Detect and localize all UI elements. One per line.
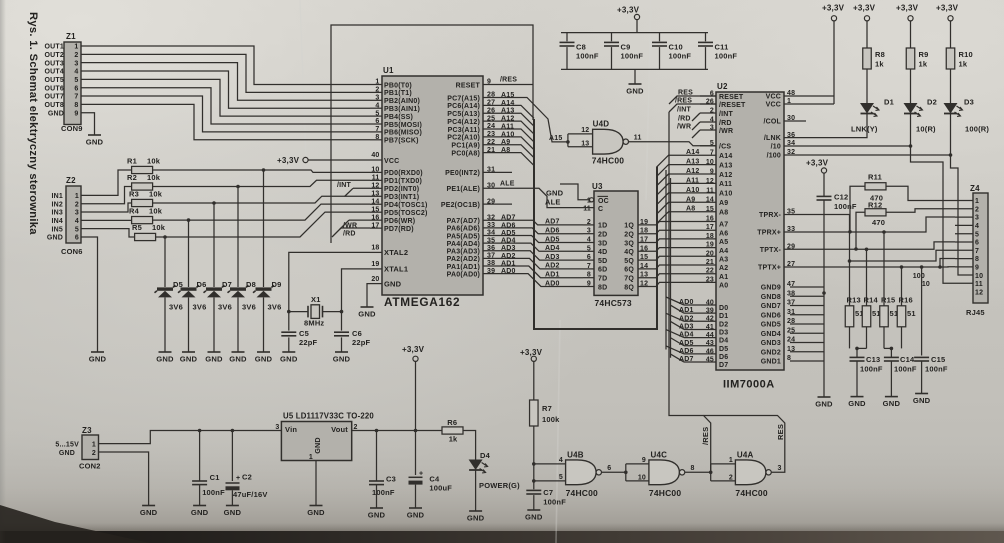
svg-text:+3,3V: +3,3V: [617, 6, 640, 15]
svg-text:A12: A12: [719, 172, 732, 179]
wire R4 output to U1 PD4: [153, 204, 370, 222]
ground zener D6: [180, 298, 198, 364]
svg-text:PD3(INT1): PD3(INT1): [384, 194, 419, 201]
svg-text:D1: D1: [884, 98, 894, 107]
svg-text:IN3: IN3: [52, 210, 64, 217]
net labels AD7-AD0 at U1: [501, 215, 516, 275]
svg-text:100nF: 100nF: [834, 202, 857, 211]
svg-text:Z2: Z2: [66, 176, 76, 185]
svg-text:/RD: /RD: [719, 120, 732, 127]
svg-text:D2: D2: [927, 98, 937, 107]
svg-text:1k: 1k: [875, 60, 884, 69]
svg-text:74HC00: 74HC00: [592, 156, 624, 166]
svg-text:AD4: AD4: [679, 332, 694, 339]
svg-text:GND: GND: [224, 508, 242, 517]
net label /RD at U1 PD7: [332, 228, 370, 237]
svg-text:Z4: Z4: [970, 184, 980, 193]
svg-text:5: 5: [75, 226, 79, 233]
svg-text:12: 12: [706, 178, 714, 185]
capacitor C6 22pF: [334, 312, 371, 347]
svg-text:PA6(AD6): PA6(AD6): [447, 226, 480, 233]
svg-text:A8: A8: [719, 210, 728, 217]
svg-text:GND: GND: [848, 399, 866, 408]
resistor R7 100k: [530, 400, 561, 426]
svg-text:470: 470: [872, 218, 885, 227]
svg-text:3: 3: [75, 210, 79, 217]
resistor R9 1k: [906, 21, 928, 69]
capacitor C12 100nF: [817, 173, 857, 211]
svg-text:9: 9: [975, 265, 979, 272]
ground C1: [191, 485, 209, 517]
wire Z2 pin3 to R3: [81, 203, 132, 212]
svg-text:100nF: 100nF: [715, 52, 738, 61]
ic U2 IIM7000A: [716, 82, 784, 391]
svg-text:4: 4: [559, 457, 563, 464]
svg-text:10k: 10k: [149, 190, 163, 199]
svg-text:U4A: U4A: [737, 451, 754, 460]
svg-text:GND: GND: [815, 400, 833, 409]
svg-text:1Q: 1Q: [624, 223, 634, 230]
svg-text:4: 4: [74, 69, 78, 76]
U2 left pin labels A7-A0: [719, 222, 728, 290]
net labels RES /RES /INT /RD /WR at U2: [675, 90, 693, 131]
svg-text:PB6(MISO): PB6(MISO): [384, 130, 422, 137]
svg-text:100nF: 100nF: [894, 365, 917, 374]
svg-text:23: 23: [706, 276, 714, 283]
ground C13: [848, 361, 866, 408]
svg-text:1: 1: [92, 441, 96, 448]
svg-text:15: 15: [706, 206, 714, 213]
resistor R13 51: [845, 296, 864, 327]
wire U4D output to U2 /CS: [629, 142, 716, 146]
svg-text:4: 4: [75, 218, 79, 225]
nand gate U4C 74HC00: [649, 451, 695, 499]
svg-text:40: 40: [371, 152, 379, 159]
svg-text:/10: /10: [771, 144, 781, 151]
zener D5 3V6: [155, 280, 184, 312]
svg-text:10: 10: [706, 159, 714, 166]
svg-text:R7: R7: [542, 404, 552, 413]
svg-text:A12: A12: [686, 168, 699, 175]
svg-text:GND: GND: [280, 355, 298, 364]
svg-text:XTAL2: XTAL2: [384, 248, 408, 257]
power +3.3V at C12: [806, 159, 829, 174]
resistor R15 51: [880, 296, 899, 327]
wire Z2 pin4 to R4: [81, 219, 132, 221]
svg-text:R16: R16: [899, 296, 913, 305]
svg-text:GND: GND: [307, 508, 325, 517]
resistor R3 10k: [129, 190, 163, 207]
svg-text:2: 2: [74, 52, 78, 59]
svg-text:U1: U1: [383, 66, 394, 75]
wire TPRX+ to R15 and Z4 pin3: [784, 217, 955, 306]
svg-text:C10: C10: [669, 43, 683, 52]
svg-text:D6: D6: [719, 354, 728, 361]
U1 right pin labels and numbers: [441, 79, 495, 279]
svg-text:1: 1: [75, 193, 79, 200]
ground C2: [224, 490, 242, 517]
svg-text:51: 51: [907, 309, 916, 318]
ground C6: [333, 337, 351, 363]
wire Z3 pin1 to regulator rail: [99, 431, 282, 444]
svg-text:D0: D0: [719, 305, 728, 312]
svg-text:PB7(SCK): PB7(SCK): [384, 138, 419, 145]
svg-text:10: 10: [922, 281, 930, 288]
svg-text:+: +: [236, 475, 240, 482]
svg-text:C8: C8: [576, 43, 586, 52]
svg-text:AD6: AD6: [545, 228, 560, 235]
svg-text:5: 5: [74, 77, 78, 84]
U2 left pin labels A14-A8: [706, 150, 733, 217]
wire R3 output to U1 PD3: [153, 196, 370, 205]
svg-text:PC4(A12): PC4(A12): [447, 119, 480, 126]
wire U4C output to U4A inputs: [685, 457, 736, 482]
bus A14-A8 from U1 to U2: [500, 105, 716, 329]
wire TPTX- to R14 and Z4 pin6: [784, 242, 955, 306]
zener D8 3V6: [228, 280, 257, 312]
ground D4: [467, 470, 485, 523]
svg-text:20: 20: [371, 276, 379, 283]
svg-text:GND: GND: [358, 310, 376, 319]
svg-text:10k: 10k: [147, 157, 161, 166]
svg-text:U4B: U4B: [567, 451, 584, 460]
svg-text:PC3(A11): PC3(A11): [448, 127, 480, 134]
svg-text:4D: 4D: [598, 249, 607, 256]
svg-text:GND: GND: [86, 138, 104, 147]
connector Z3 CON2: [55, 426, 100, 471]
wire U2 ground bus: [790, 200, 826, 397]
wire R11 to Z4 pin1: [848, 186, 955, 233]
svg-text:/INT: /INT: [719, 111, 734, 118]
svg-text:1k: 1k: [449, 435, 458, 444]
svg-text:C2: C2: [242, 473, 252, 482]
svg-text:5: 5: [975, 231, 979, 238]
ground zener D9: [255, 298, 273, 364]
svg-text:74HC00: 74HC00: [649, 488, 681, 498]
svg-text:Z1: Z1: [66, 32, 76, 41]
svg-text:PB4(SS): PB4(SS): [384, 114, 413, 121]
wire input to zener D9: [263, 170, 265, 287]
power +3.3V at regulator output: [402, 345, 425, 431]
svg-text:A11: A11: [686, 177, 699, 184]
svg-text:1: 1: [74, 44, 78, 51]
capacitor C8 100nF: [560, 33, 599, 70]
svg-text:C9: C9: [621, 43, 631, 52]
svg-text:1k: 1k: [919, 60, 928, 69]
ground Z2 pin6: [81, 237, 107, 364]
svg-text:R8: R8: [875, 50, 885, 59]
svg-text:3V6: 3V6: [193, 303, 207, 312]
svg-text:GND: GND: [59, 450, 75, 457]
svg-text:19: 19: [706, 242, 714, 249]
svg-text:ALE: ALE: [545, 198, 561, 207]
wire R5 output to U1 PD5: [156, 212, 370, 239]
svg-text:5...15V: 5...15V: [55, 442, 79, 449]
svg-text:+3,3V: +3,3V: [896, 4, 919, 13]
svg-text:A13: A13: [719, 162, 732, 169]
svg-text:8: 8: [975, 256, 979, 263]
wire R6 to led D4: [463, 431, 476, 460]
svg-text:GND7: GND7: [761, 303, 781, 310]
resistor R2 10k: [127, 173, 161, 190]
svg-text:A14: A14: [686, 149, 699, 156]
svg-text:/100: /100: [767, 153, 781, 160]
svg-text:GND3: GND3: [761, 340, 781, 347]
svg-text:10k: 10k: [149, 207, 163, 216]
svg-text:2D: 2D: [598, 232, 607, 239]
svg-text:GND: GND: [205, 355, 223, 364]
wire input to zener D7: [213, 203, 215, 287]
svg-text:5D: 5D: [598, 258, 607, 265]
svg-text:10: 10: [975, 273, 983, 280]
svg-text:PE1(ALE): PE1(ALE): [447, 186, 481, 193]
resistor R4 10k: [129, 207, 163, 224]
svg-text:100nF: 100nF: [860, 365, 883, 374]
svg-text:/LNK: /LNK: [764, 135, 781, 142]
svg-text:GND: GND: [313, 437, 322, 454]
svg-text:PD7(RD): PD7(RD): [384, 226, 414, 233]
wire XTAL1 to crystal: [340, 269, 370, 314]
svg-text:AD2: AD2: [545, 263, 560, 270]
svg-text:OUT2: OUT2: [45, 52, 64, 59]
wire XTAL2 to crystal: [287, 252, 370, 313]
svg-text:AD0: AD0: [545, 280, 560, 287]
resistor R5 10k: [132, 223, 166, 241]
svg-text:8: 8: [74, 102, 78, 109]
svg-text:D5: D5: [719, 346, 728, 353]
svg-text:OUT6: OUT6: [45, 85, 64, 92]
svg-text:R14: R14: [864, 296, 879, 305]
wire R1 output to U1 PD0: [153, 168, 370, 172]
svg-text:7: 7: [74, 94, 78, 101]
svg-text:OUT8: OUT8: [45, 102, 64, 109]
svg-text:8D: 8D: [598, 284, 607, 291]
net label /INT at U1 PD2: [337, 182, 370, 197]
svg-text:11: 11: [634, 135, 642, 142]
led D4 POWER(G): [469, 451, 520, 490]
svg-text:4: 4: [975, 223, 979, 230]
svg-text:A2: A2: [719, 265, 728, 272]
svg-text:8Q: 8Q: [624, 284, 634, 291]
svg-text:AD5: AD5: [545, 236, 560, 243]
svg-text:1: 1: [309, 454, 313, 461]
svg-text:+3,3V: +3,3V: [277, 156, 300, 165]
svg-text:TPTX-: TPTX-: [760, 247, 782, 254]
svg-text:6: 6: [607, 465, 611, 472]
svg-text:OUT7: OUT7: [45, 94, 64, 101]
svg-text:6D: 6D: [598, 267, 607, 274]
svg-text:OUT5: OUT5: [45, 77, 64, 84]
svg-text:1k: 1k: [959, 60, 968, 69]
svg-text:A10: A10: [686, 187, 699, 194]
connector Z2 CON6: [47, 176, 83, 256]
ground cap bank: [626, 69, 644, 95]
svg-text:/INT: /INT: [337, 182, 352, 189]
resistor R8 1k with LED column: [863, 21, 885, 69]
svg-text:OUT4: OUT4: [45, 69, 64, 76]
svg-text:PC0(A8): PC0(A8): [451, 150, 480, 157]
wire R12 to Z4 pin2: [854, 209, 955, 251]
ground C3: [368, 485, 386, 520]
svg-text:AD7: AD7: [679, 356, 694, 363]
svg-text:5: 5: [559, 474, 563, 481]
svg-text:R5: R5: [132, 223, 142, 232]
svg-text:D7: D7: [719, 362, 728, 369]
svg-text:100nF: 100nF: [925, 365, 948, 374]
svg-text:PE2(OC1B): PE2(OC1B): [441, 202, 480, 209]
svg-text:D9: D9: [272, 280, 282, 289]
svg-text:GND: GND: [913, 396, 931, 405]
svg-text:A5: A5: [719, 239, 728, 246]
ground C15: [913, 361, 931, 405]
connector Z4 RJ45: [966, 184, 988, 317]
svg-text:U2: U2: [717, 82, 728, 91]
ic U3 74HC573: [592, 182, 638, 308]
svg-text:74HC00: 74HC00: [566, 488, 598, 498]
svg-text:AD3: AD3: [679, 323, 694, 330]
svg-text:3V6: 3V6: [169, 303, 183, 312]
capacitor C10 100nF: [652, 33, 691, 70]
svg-text:AD2: AD2: [679, 315, 694, 322]
net label /RES vertical: [701, 427, 710, 445]
ground C7: [525, 495, 543, 521]
svg-text:GND: GND: [89, 355, 107, 364]
svg-text:LNK(Y): LNK(Y): [851, 125, 878, 134]
power +3.3V R8: [853, 4, 876, 21]
net labels A15-A8 at U1: [501, 92, 514, 154]
svg-text:74HC573: 74HC573: [595, 298, 632, 308]
svg-text:AD5: AD5: [679, 340, 694, 347]
svg-text:CON6: CON6: [61, 247, 83, 256]
svg-text:PA1(AD1): PA1(AD1): [447, 264, 480, 271]
svg-text:3V6: 3V6: [242, 303, 256, 312]
svg-text:GND: GND: [229, 355, 247, 364]
svg-text:U4D: U4D: [593, 120, 610, 129]
svg-text:C: C: [598, 206, 603, 213]
wire D1 to U2 /LNK: [784, 114, 867, 138]
svg-text:RES: RES: [678, 90, 693, 97]
svg-text:16: 16: [706, 216, 714, 223]
svg-text:7: 7: [975, 248, 979, 255]
svg-text:/RES: /RES: [500, 77, 517, 84]
zener D6 3V6: [178, 280, 207, 312]
svg-text:PD6(WR): PD6(WR): [384, 218, 415, 225]
capacitor C11 100nF: [698, 33, 737, 70]
svg-text:GND: GND: [368, 511, 386, 520]
svg-text:GND: GND: [546, 189, 564, 198]
svg-text:7Q: 7Q: [624, 276, 634, 283]
svg-text:R3: R3: [129, 190, 139, 199]
svg-text:GND4: GND4: [761, 331, 781, 338]
svg-text:ALE: ALE: [500, 181, 515, 188]
svg-text:IN4: IN4: [52, 218, 64, 225]
svg-text:PA3(AD3): PA3(AD3): [447, 249, 480, 256]
led D1 LNK(Y): [851, 69, 894, 134]
svg-text:D1: D1: [719, 313, 728, 320]
wire TPRX- to R13 and Z4 pin7: [784, 215, 955, 306]
U1 pin stubs right: [483, 85, 512, 274]
svg-text:PD0(RXD0): PD0(RXD0): [384, 170, 423, 177]
svg-text:11: 11: [975, 281, 983, 288]
svg-text:/RESET: /RESET: [719, 102, 746, 109]
svg-text:100k: 100k: [542, 415, 560, 424]
U2 left pin labels top group: [706, 90, 746, 150]
svg-text:OUT3: OUT3: [45, 60, 64, 67]
svg-text:IN1: IN1: [52, 193, 64, 200]
wire Z2 pin2 to R2: [81, 187, 132, 204]
svg-text:D6: D6: [197, 280, 207, 289]
svg-text:3: 3: [778, 465, 782, 472]
svg-text:1: 1: [729, 457, 733, 464]
ground C5: [280, 337, 298, 363]
svg-text:GND6: GND6: [761, 312, 781, 319]
wire D3 to U2 /100 and Z4: [784, 114, 973, 281]
capacitor C1 100nF: [192, 429, 225, 497]
led D2 10(R): [904, 69, 938, 134]
power +3.3V top cap bank: [617, 6, 640, 33]
capacitor C5 22pF: [281, 312, 317, 347]
svg-text:IIM7000A: IIM7000A: [723, 379, 775, 391]
svg-text:A9: A9: [719, 200, 728, 207]
ground Z1 pin9: [81, 113, 104, 147]
svg-text:3: 3: [74, 60, 78, 67]
ground zener D7: [205, 298, 223, 364]
svg-text:AD1: AD1: [545, 272, 560, 279]
svg-text:C7: C7: [543, 488, 553, 497]
capacitor C3 100nF: [369, 431, 396, 498]
svg-text:Vout: Vout: [331, 425, 348, 434]
svg-text:VCC: VCC: [766, 94, 781, 101]
svg-text:GND: GND: [467, 514, 485, 523]
svg-text:22: 22: [706, 268, 714, 275]
svg-text:PB2(AIN0): PB2(AIN0): [384, 98, 420, 105]
power +3.3V R9: [896, 4, 919, 21]
svg-text:8MHz: 8MHz: [304, 319, 324, 328]
svg-text:GND: GND: [525, 513, 543, 522]
wire R7 to U4B inputs: [532, 426, 536, 483]
wire U5 Vout +3.3V rail: [352, 429, 442, 433]
svg-text:GND: GND: [384, 279, 402, 288]
wire U4B output to U4C inputs: [602, 457, 649, 482]
svg-text:PC6(A14): PC6(A14): [447, 103, 480, 110]
svg-text:+3,3V: +3,3V: [402, 345, 425, 354]
svg-text:R11: R11: [868, 173, 882, 182]
svg-text:PB1(T1): PB1(T1): [384, 90, 412, 97]
svg-text:2Q: 2Q: [624, 232, 634, 239]
svg-text:D3: D3: [719, 329, 728, 336]
ground U5: [307, 461, 325, 518]
svg-text:C13: C13: [866, 355, 880, 364]
svg-text:PB5(MOSI): PB5(MOSI): [384, 122, 422, 129]
svg-text:3D: 3D: [598, 240, 607, 247]
bus AD7-AD0 from U1 to U3: [500, 220, 583, 286]
svg-text:Z3: Z3: [82, 426, 92, 435]
svg-text:+: +: [419, 470, 423, 477]
svg-text:CON2: CON2: [79, 462, 101, 471]
svg-text:9: 9: [710, 168, 714, 175]
net label /WR at U1 PD6: [340, 220, 370, 229]
svg-text:22pF: 22pF: [352, 338, 371, 347]
svg-text:10: 10: [638, 475, 646, 482]
ground U2: [815, 397, 833, 409]
power +3.3V at R7: [520, 348, 543, 400]
bus U3 outputs to U2 A7-A0: [638, 216, 716, 287]
svg-text:Vin: Vin: [285, 425, 297, 434]
svg-text:100nF: 100nF: [202, 488, 225, 497]
svg-text:GND1: GND1: [761, 359, 781, 366]
svg-text:IN5: IN5: [52, 226, 64, 233]
svg-text:11: 11: [583, 206, 591, 213]
